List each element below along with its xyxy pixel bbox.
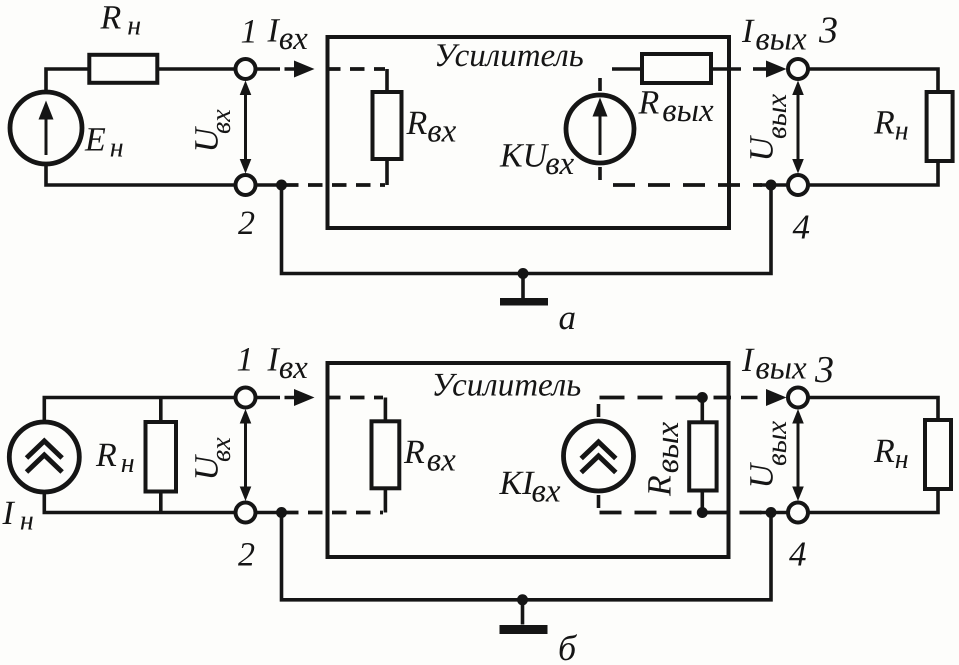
source I_n circle [9,422,79,492]
wire: source top-left corner to resistor Rn [46,69,89,91]
resistor R_vyx (b, vertical) with leads [700,398,704,513]
svg-text:3: 3 [818,10,838,52]
svg-text:2: 2 [238,537,255,574]
ground junction dot (a) [518,268,529,279]
svg-text:2: 2 [238,205,255,242]
arrow inside E_n [45,114,48,155]
wire R_vyx to box edge [711,67,741,71]
arrow I_vx (b) [256,396,297,400]
ground symbol (b) [521,600,525,625]
junction dot node 2 side [276,180,287,191]
arrow U_vyx (a) [797,92,800,162]
junction dot node 2 side (b) [276,507,287,518]
amplifier box (a) [328,37,730,228]
resistor R_n (b, parallel) with leads [159,398,163,513]
chevrons inside KI_vx [581,442,616,473]
wire: bottom rail I_n to node 2 [44,493,236,513]
node 1 (b) [236,388,256,408]
junction dots at R_vyx (b) [697,392,708,403]
svg-text:Uвх: Uвх [189,109,238,153]
svg-text:Iвх: Iвх [267,13,309,58]
svg-text:Rн: Rн [873,433,909,475]
ground wires (a) [282,184,772,274]
arrow U_vx [244,92,247,162]
arrow I_vyx (a) [753,67,766,71]
chevrons inside I_n [27,441,63,472]
node 2 (b) [236,503,256,523]
ground symbol (a) [521,274,525,299]
svg-text:3: 3 [814,349,834,391]
svg-text:Uвых: Uвых [744,421,794,489]
svg-text:Усилитель: Усилитель [432,368,582,404]
svg-text:Rвых: Rвых [642,422,687,497]
wire load bottom to node 4 [808,160,938,185]
load resistor R_n (b, right) [925,420,951,489]
node 2 [236,175,256,195]
source E_n circle [10,92,82,164]
dashed input wire bottom (a) [255,183,284,187]
svg-text:б: б [558,628,578,665]
svg-text:Uвх: Uвх [189,437,238,481]
svg-text:а: а [559,298,577,337]
svg-text:KUвх: KUвх [499,138,575,183]
ground junction dot (b) [517,594,528,605]
dashed lead above KU_vx [600,69,641,91]
source KU_vx circle [566,95,634,163]
dashed lead below KU_vx to node 4 junction [598,167,602,180]
node 3 (b) [788,388,808,408]
svg-text:KIвх: KIвх [499,465,561,510]
svg-text:Rвых: Rвых [638,85,714,130]
resistor R_n (top left) [89,55,157,83]
svg-text:Rн: Rн [100,0,142,42]
dashed input wire bottom (b) [255,511,284,515]
node 3 [788,59,808,79]
node 1 [236,59,256,79]
svg-text:Rвх: Rвх [406,105,457,150]
svg-text:Iвх: Iвх [267,342,309,387]
dashed input wire top (a) [326,67,385,71]
wire node 3 to load (b) [808,398,938,420]
dashed lead below KI_vx to node 4 junction [597,495,601,508]
wire: top rail I_n to node 1 [44,398,236,421]
wire node 3 to load [808,69,938,91]
junction dot node 4 side [766,180,777,191]
wire load bottom to node 4 (b) [808,488,938,513]
svg-text:Iн: Iн [2,495,34,537]
svg-text:4: 4 [789,535,807,574]
source KI_vx circle [564,421,634,491]
svg-text:1: 1 [237,342,254,379]
resistor R_vyx (a, horizontal) [642,54,711,83]
load resistor R_n (a, right) [927,92,953,161]
arrow I_vyx (b) [741,396,758,400]
dashed lead above KI_vx to R_vyx junction [597,404,601,417]
node 4 [788,175,808,195]
amplifier box (b) [328,363,729,557]
svg-text:Iвых: Iвых [741,13,807,58]
node 4 (b) [788,503,808,523]
svg-text:Rн: Rн [95,437,135,479]
resistor R_vx (b) with leads [384,398,388,513]
svg-text:1: 1 [241,14,258,51]
svg-text:Rвх: Rвх [403,434,456,479]
arrow I_vx [256,67,297,71]
resistor R_vx (a) with leads [385,69,389,185]
svg-text:Iвых: Iвых [741,342,807,387]
arrow U_vyx (b) [797,420,800,490]
svg-text:Rн: Rн [873,105,909,147]
wire: source bottom to node 2 [46,164,236,185]
wire: resistor Rn to node 1 [157,67,236,71]
svg-text:Eн: Eн [84,122,124,164]
arrow inside KU_vx [599,112,602,155]
svg-text:Uвых: Uвых [744,94,794,162]
svg-text:Усилитель: Усилитель [434,38,584,74]
dashed input wire top (b) [326,396,383,400]
junction dot node 4 side (b) [766,507,777,518]
svg-text:4: 4 [793,208,811,247]
ground wires (b) [282,512,772,600]
arrow U_vx (b) [244,420,247,490]
